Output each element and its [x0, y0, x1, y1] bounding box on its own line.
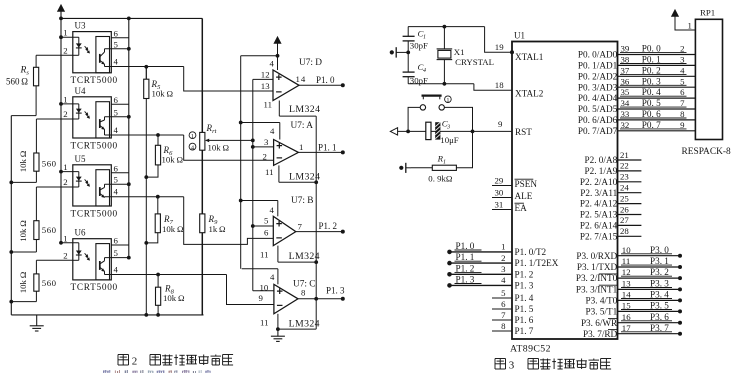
- svg-text:6: 6: [680, 87, 685, 97]
- svg-text:U7: B: U7: B: [291, 196, 313, 206]
- svg-text:560: 560: [42, 225, 57, 235]
- svg-text:10: 10: [260, 283, 269, 293]
- svg-text:TCRT5000: TCRT5000: [71, 141, 118, 151]
- svg-text:P2. 1/A9: P2. 1/A9: [585, 166, 618, 176]
- svg-text:P3. 4/T0: P3. 4/T0: [586, 296, 618, 306]
- svg-text:P1. 7: P1. 7: [515, 326, 534, 336]
- svg-text:26: 26: [620, 204, 629, 214]
- svg-text:14: 14: [296, 74, 307, 84]
- svg-text:22: 22: [620, 161, 629, 171]
- svg-text:10k Ω: 10k Ω: [162, 155, 184, 165]
- svg-text:31: 31: [495, 199, 504, 209]
- svg-text:2: 2: [501, 253, 505, 263]
- svg-text:1: 1: [501, 242, 505, 252]
- svg-text:P2. 4/A12: P2. 4/A12: [580, 199, 618, 209]
- svg-text:−: −: [276, 87, 282, 99]
- svg-text:RESPACK-8: RESPACK-8: [682, 147, 731, 157]
- svg-text:P3. 7/RD: P3. 7/RD: [583, 329, 618, 339]
- svg-text:1: 1: [63, 94, 67, 104]
- svg-text:5: 5: [264, 216, 269, 226]
- svg-text:13: 13: [622, 279, 631, 289]
- svg-text:11: 11: [260, 318, 268, 328]
- svg-text:2: 2: [63, 45, 67, 55]
- svg-text:1: 1: [446, 97, 449, 104]
- svg-text:P3. 6/WR: P3. 6/WR: [581, 318, 618, 328]
- svg-text:7: 7: [298, 222, 303, 232]
- svg-text:P3. 0/RXD: P3. 0/RXD: [576, 251, 617, 261]
- svg-text:P1. 3: P1. 3: [515, 281, 534, 291]
- svg-text:P1. 1: P1. 1: [318, 143, 337, 153]
- svg-text:P0. 2/AD2: P0. 2/AD2: [578, 71, 618, 81]
- svg-text:28: 28: [620, 226, 629, 236]
- svg-text:+: +: [276, 140, 282, 152]
- svg-text:4: 4: [423, 67, 426, 74]
- svg-text:P2. 2/A10: P2. 2/A10: [580, 177, 618, 187]
- svg-text:P0. 1: P0. 1: [642, 55, 661, 65]
- svg-text:37: 37: [621, 65, 630, 75]
- svg-text:8: 8: [680, 109, 685, 119]
- svg-text:U1: U1: [514, 31, 525, 41]
- svg-text:TCRT5000: TCRT5000: [71, 209, 118, 219]
- svg-text:10k Ω: 10k Ω: [163, 293, 185, 303]
- svg-text:1: 1: [63, 233, 67, 243]
- svg-text:12: 12: [261, 70, 270, 80]
- svg-text:P0. 4: P0. 4: [642, 87, 661, 97]
- svg-text:25: 25: [620, 193, 629, 203]
- svg-text:4: 4: [270, 126, 275, 136]
- svg-text:P3. 3/INT1: P3. 3/INT1: [576, 285, 618, 295]
- svg-text:X1: X1: [454, 47, 465, 57]
- svg-text:5: 5: [680, 76, 685, 86]
- svg-text:3: 3: [501, 264, 506, 274]
- svg-text:P0. 5/AD5: P0. 5/AD5: [578, 104, 618, 114]
- svg-text:9: 9: [259, 293, 264, 303]
- svg-text:16: 16: [622, 312, 631, 322]
- svg-text:1k Ω: 1k Ω: [209, 224, 227, 234]
- svg-text:3: 3: [680, 55, 685, 65]
- svg-text:10k Ω: 10k Ω: [152, 89, 174, 99]
- svg-text:4: 4: [114, 265, 119, 275]
- svg-text:6: 6: [114, 236, 119, 246]
- svg-text:P1. 1/T2EX: P1. 1/T2EX: [515, 258, 559, 268]
- svg-text:P3. 7: P3. 7: [650, 323, 669, 333]
- svg-text:P3. 5: P3. 5: [650, 301, 669, 311]
- svg-text:P3. 5/T1: P3. 5/T1: [586, 307, 618, 317]
- svg-text:15: 15: [622, 301, 631, 311]
- svg-text:CRYSTAL: CRYSTAL: [455, 57, 494, 67]
- svg-text:+: +: [276, 218, 282, 230]
- svg-text:1: 1: [443, 159, 446, 165]
- svg-text:6: 6: [114, 28, 119, 38]
- svg-text:10k Ω: 10k Ω: [162, 224, 184, 234]
- svg-text:4: 4: [114, 187, 119, 197]
- svg-text:10k Ω: 10k Ω: [18, 271, 28, 293]
- svg-text:P0. 7/AD7: P0. 7/AD7: [578, 126, 618, 136]
- svg-text:U5: U5: [75, 154, 86, 164]
- svg-text:TCRT5000: TCRT5000: [71, 76, 118, 86]
- svg-text:U3: U3: [75, 21, 86, 31]
- svg-text:P3. 0: P3. 0: [650, 245, 669, 255]
- svg-text:2: 2: [63, 109, 67, 119]
- svg-text:P1. 1: P1. 1: [456, 252, 475, 262]
- svg-text:P3. 6: P3. 6: [650, 312, 669, 322]
- svg-text:3: 3: [446, 124, 450, 130]
- svg-text:11: 11: [260, 250, 268, 260]
- svg-text:4: 4: [114, 57, 119, 67]
- svg-text:P1. 2: P1. 2: [456, 263, 475, 273]
- svg-text:4: 4: [270, 272, 275, 282]
- svg-text:P0. 0: P0. 0: [642, 44, 661, 54]
- svg-text:RP1: RP1: [700, 8, 715, 18]
- svg-text:4: 4: [680, 65, 685, 75]
- svg-text:XTAL1: XTAL1: [515, 52, 544, 62]
- svg-text:P0. 1/AD1: P0. 1/AD1: [578, 61, 618, 71]
- svg-text:P2. 7/A15: P2. 7/A15: [580, 231, 618, 241]
- svg-text:14: 14: [622, 290, 631, 300]
- svg-text:P2. 0/A8: P2. 0/A8: [585, 155, 618, 165]
- svg-text:32: 32: [621, 120, 630, 130]
- svg-text:P0. 2: P0. 2: [642, 65, 661, 75]
- svg-text:29: 29: [495, 175, 504, 185]
- svg-text:P2. 6/A14: P2. 6/A14: [580, 221, 618, 231]
- svg-text:LM324: LM324: [289, 319, 320, 330]
- svg-text:P1. 0: P1. 0: [456, 241, 475, 251]
- svg-text:P1. 6: P1. 6: [515, 315, 534, 325]
- svg-text:10k Ω: 10k Ω: [18, 150, 28, 172]
- svg-text:39: 39: [621, 44, 630, 54]
- svg-text:ALE: ALE: [515, 191, 533, 201]
- svg-text:7: 7: [680, 98, 685, 108]
- svg-text:560 Ω: 560 Ω: [6, 76, 28, 86]
- svg-text:P1. 5: P1. 5: [515, 304, 534, 314]
- svg-text:P1. 0/T2: P1. 0/T2: [515, 247, 547, 257]
- svg-text:8: 8: [301, 288, 306, 298]
- svg-text:P3. 4: P3. 4: [650, 290, 669, 300]
- svg-text:27: 27: [620, 215, 629, 225]
- svg-text:P1. 2: P1. 2: [515, 269, 534, 279]
- svg-text:2: 2: [132, 356, 138, 368]
- svg-text:6: 6: [114, 95, 119, 105]
- svg-text:P3. 2: P3. 2: [650, 267, 669, 277]
- svg-text:1: 1: [423, 34, 426, 40]
- svg-text:24: 24: [620, 183, 629, 193]
- svg-text:P1. 4: P1. 4: [515, 293, 534, 303]
- svg-text:6: 6: [114, 163, 119, 173]
- svg-text:12: 12: [622, 267, 631, 277]
- svg-text:4: 4: [114, 125, 119, 135]
- svg-text:2: 2: [680, 44, 684, 54]
- svg-text:4: 4: [270, 205, 275, 215]
- svg-text:3: 3: [264, 137, 269, 147]
- svg-text:1: 1: [191, 133, 194, 140]
- svg-text:−: −: [276, 300, 282, 312]
- svg-text:P1. 2: P1. 2: [319, 221, 338, 231]
- svg-text:P3. 3: P3. 3: [650, 279, 669, 289]
- svg-text:PSEN: PSEN: [515, 179, 538, 189]
- svg-text:EA: EA: [515, 203, 528, 213]
- svg-text:U6: U6: [75, 228, 86, 238]
- svg-text:+: +: [276, 72, 282, 84]
- svg-text:11: 11: [264, 100, 272, 110]
- svg-text:6: 6: [264, 228, 269, 238]
- svg-text:−: −: [276, 232, 282, 244]
- svg-text:P0. 3/AD3: P0. 3/AD3: [578, 82, 618, 92]
- svg-text:XTAL2: XTAL2: [515, 89, 544, 99]
- svg-text:2: 2: [263, 151, 267, 161]
- svg-text:P0. 5: P0. 5: [642, 98, 661, 108]
- svg-text:P2. 5/A13: P2. 5/A13: [580, 210, 618, 220]
- svg-text:1: 1: [63, 28, 67, 38]
- svg-text:TCRT5000: TCRT5000: [71, 283, 118, 293]
- svg-text:P3. 1/TXD: P3. 1/TXD: [577, 262, 618, 272]
- svg-text:4: 4: [501, 275, 506, 285]
- svg-text:5: 5: [114, 39, 119, 49]
- svg-text:P0. 3: P0. 3: [642, 76, 661, 86]
- svg-text:rt: rt: [212, 128, 217, 135]
- svg-text:1: 1: [299, 142, 304, 152]
- svg-text:2: 2: [63, 250, 67, 260]
- svg-text:30: 30: [495, 187, 504, 197]
- svg-text:36: 36: [621, 76, 630, 86]
- svg-text:P1. 3: P1. 3: [456, 275, 475, 285]
- svg-text:0. 9kΩ: 0. 9kΩ: [428, 174, 453, 184]
- svg-text:10k Ω: 10k Ω: [18, 220, 28, 242]
- svg-text:P3. 1: P3. 1: [650, 256, 669, 266]
- svg-text:U4: U4: [75, 86, 86, 96]
- svg-text:30pF: 30pF: [410, 41, 428, 51]
- svg-text:9: 9: [498, 119, 503, 129]
- svg-text:34: 34: [621, 98, 630, 108]
- svg-text:P1. 3: P1. 3: [326, 286, 345, 296]
- svg-text:19: 19: [495, 42, 504, 52]
- svg-text:13: 13: [261, 81, 270, 91]
- svg-text:10μF: 10μF: [440, 135, 459, 145]
- svg-text:10k Ω: 10k Ω: [208, 142, 230, 152]
- svg-text:560: 560: [42, 159, 57, 169]
- svg-text:9: 9: [680, 120, 685, 130]
- svg-text:21: 21: [620, 150, 629, 160]
- svg-text:+: +: [276, 286, 282, 298]
- svg-text:P1. 0: P1. 0: [316, 75, 335, 85]
- svg-text:5: 5: [114, 248, 119, 258]
- svg-text:7: 7: [501, 310, 506, 320]
- svg-text:1: 1: [63, 162, 67, 172]
- svg-text:P0. 4/AD4: P0. 4/AD4: [578, 93, 618, 103]
- svg-text:8: 8: [501, 321, 506, 331]
- svg-text:10: 10: [622, 245, 631, 255]
- svg-text:5: 5: [114, 175, 119, 185]
- svg-text:4: 4: [270, 59, 275, 69]
- svg-text:11: 11: [265, 167, 273, 177]
- svg-text:P0. 6/AD6: P0. 6/AD6: [578, 115, 618, 125]
- svg-text:P0. 0/AD0: P0. 0/AD0: [578, 50, 618, 60]
- svg-text:LM324: LM324: [289, 251, 320, 262]
- svg-text:U7: A: U7: A: [291, 121, 314, 131]
- svg-text:6: 6: [501, 299, 506, 309]
- svg-text:11: 11: [622, 256, 630, 266]
- svg-text:35: 35: [621, 87, 630, 97]
- svg-text:1: 1: [688, 21, 692, 31]
- svg-text:560: 560: [42, 278, 57, 288]
- svg-text:38: 38: [621, 55, 630, 65]
- svg-text:18: 18: [495, 80, 504, 90]
- svg-text:LM324: LM324: [289, 104, 320, 115]
- svg-text:17: 17: [622, 323, 631, 333]
- svg-text:P0. 6: P0. 6: [642, 109, 661, 119]
- svg-text:3: 3: [509, 360, 515, 372]
- svg-text:23: 23: [620, 172, 629, 182]
- svg-text:−: −: [276, 153, 282, 165]
- svg-text:33: 33: [621, 109, 630, 119]
- svg-text:5: 5: [114, 107, 119, 117]
- svg-text:P2. 3/A11: P2. 3/A11: [580, 188, 617, 198]
- svg-text:2: 2: [63, 177, 67, 187]
- svg-text:AT89C52: AT89C52: [510, 344, 551, 355]
- svg-text:P0. 7: P0. 7: [642, 120, 661, 130]
- svg-text:5: 5: [501, 288, 506, 298]
- svg-text:U7: D: U7: D: [299, 58, 322, 68]
- svg-text:RST: RST: [515, 127, 532, 137]
- svg-text:P3. 2/INT0: P3. 2/INT0: [576, 273, 618, 283]
